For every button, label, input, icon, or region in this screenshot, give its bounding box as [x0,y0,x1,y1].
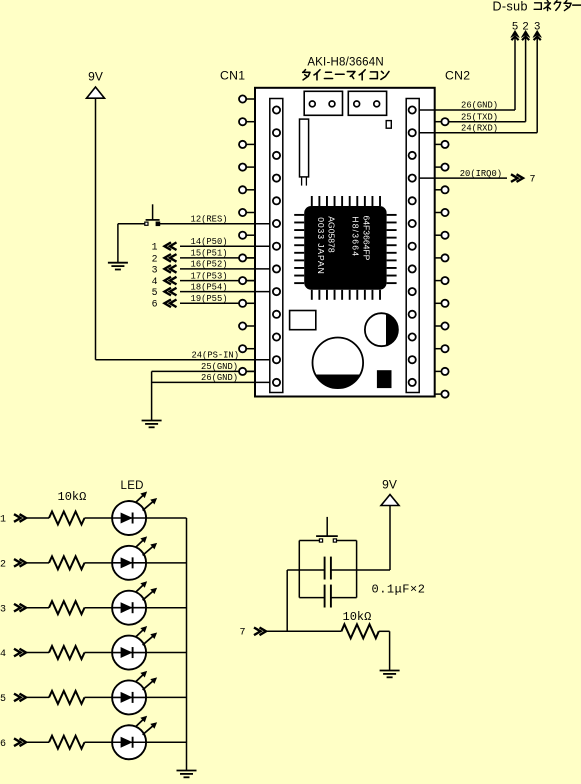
small pad [386,121,391,129]
IC pin right 10 [387,282,397,284]
wire 24(RXD) to D-sub 3 [412,132,537,134]
IC pin top 2 [318,196,320,206]
IC pin right 8 [387,267,397,269]
svg-text:17(P53): 17(P53) [191,271,228,281]
title katakana tiny microcomputer [303,70,305,73]
IC pin right 9 [387,275,397,277]
svg-text:H8/3664: H8/3664 [351,216,361,257]
CN1 inner pin row 10 [273,311,280,318]
svg-text:LED: LED [121,480,144,492]
svg-text:0.1μF×2: 0.1μF×2 [372,583,426,597]
wire ground to switch [118,223,146,225]
wire 14(P50) [180,245,277,247]
CN1 outer pin row 1 [243,98,255,100]
IC pin bottom 4 [334,290,336,300]
ground (LED bus) [177,770,197,772]
wire input row 2 [27,562,49,564]
CN1 inner pin row 6 [273,220,280,227]
arrow in 1 [20,514,27,522]
power 9V triangle symbol left [87,87,105,98]
wire 12(RES) [160,223,277,225]
CN2 inner pin row 8 [409,265,416,272]
svg-text:19(P55): 19(P55) [191,294,228,304]
IC pin left 6 [294,252,304,254]
CN2 inner pin row 2 [409,129,416,136]
IC pin left 2 [294,221,304,223]
svg-text:D-sub: D-sub [493,0,528,14]
svg-text:5: 5 [152,287,158,298]
svg-text:10kΩ: 10kΩ [343,610,372,624]
CN2 inner pin row 10 [409,311,416,318]
wire resistor to LED row 6 [85,741,113,743]
svg-text:6: 6 [152,299,158,310]
CN1 inner pin row 2 [273,129,280,136]
component pad rectangle [290,311,316,330]
CN1 inner pin row 3 [273,152,280,159]
resistor R2 10k [49,556,85,569]
CN2 inner pin row 12 [409,356,416,363]
svg-text:14(P50): 14(P50) [191,237,228,247]
arrow out 2 [165,254,172,262]
svg-text:18(P54): 18(P54) [191,282,228,292]
CN2 inner pin row 9 [409,288,416,295]
arrow in 3 [20,604,27,612]
LED D1 [112,501,146,535]
IC pin top 10 [379,196,381,206]
IC pin right 3 [387,229,397,231]
IC pin left 9 [294,275,304,277]
IC pin right 7 [387,259,397,261]
IC pin top 1 [311,196,313,206]
arrow out 5 [165,288,172,296]
LED common bus wire [186,518,188,771]
CN1 outer pin row 13 [243,370,255,372]
CN2 inner pin row 11 [409,333,416,340]
wire resistor to LED row 5 [85,696,113,698]
CN1 inner pin row 1 [273,106,280,113]
ground (module GND) [142,420,162,422]
wire 15(P51) [180,257,255,259]
CN1 outer pin row 3 [243,143,255,145]
svg-text:64F3664FP: 64F3664FP [362,216,372,261]
svg-text:9V: 9V [382,478,397,492]
svg-text:15(P51): 15(P51) [191,249,228,259]
IC pin bottom 3 [326,290,328,300]
svg-text:CN2: CN2 [445,68,470,82]
IC pin top 4 [334,196,336,206]
arrow in 7 [260,628,267,636]
arrow in 4 [20,649,27,657]
IC pin bottom 8 [364,290,366,300]
CN2 inner pin row 7 [409,243,416,250]
resistor R1 10k [49,512,85,525]
IC pin right 4 [387,237,397,239]
CN1 outer pin row 8 [243,257,255,259]
IC U1 H8/3664 [304,206,386,290]
CN2 outer pin row 13 [435,393,445,395]
wire 25(TXD) to D-sub 2 [449,121,526,123]
wire resistor to ground [379,630,390,632]
IC pin left 10 [294,282,304,284]
wire LED to bus row 3 [146,607,186,609]
CN2 inner pin row 13 [409,379,416,386]
CN1 inner pin row 7 [273,243,280,250]
wire 18(P54) [180,291,277,293]
jumper header block 2 [348,91,386,115]
IC pin bottom 9 [371,290,373,300]
svg-text:CN1: CN1 [220,68,245,82]
CN1 outer pin row 2 [243,121,255,123]
wire input row 4 [27,652,49,654]
svg-text:2: 2 [152,253,158,264]
svg-text:4: 4 [152,276,158,287]
wire 9V down [389,506,391,571]
CN2 outer pin row 3 [435,166,445,168]
CN1 outer pin row 4 [243,166,255,168]
arrow out 3 [165,265,172,273]
capacitor round (right, half filled) [365,313,398,346]
svg-text:3: 3 [0,604,6,615]
IC pin top 5 [341,196,343,206]
wire 24(PS-IN) [96,359,277,361]
svg-text:12(RES): 12(RES) [191,214,228,224]
svg-text:1: 1 [152,242,158,253]
IC pin bottom 2 [318,290,320,300]
CN2 inner pin row 4 [409,175,416,182]
svg-text:20(IRQ0): 20(IRQ0) [460,169,502,179]
IC pin right 5 [387,244,397,246]
wire LED to bus row 2 [146,562,186,564]
resistor R7 10k [341,624,378,638]
electrolytic capacitor (big, bottom filled) [313,338,364,389]
wire input row 5 [27,696,49,698]
CN2 outer pin row 10 [435,325,445,327]
ground (pulldown) [380,670,400,672]
CN1 outer pin row 9 [243,280,255,282]
CN2 outer pin row 7 [435,257,445,259]
IC pin bottom 7 [356,290,358,300]
resistor R6 10k [49,736,85,749]
wire 25(GND) [152,370,255,372]
black pad component [377,370,392,388]
pushbutton switch SW1 (reset) [152,204,154,220]
CN1 inner pin row 11 [273,333,280,340]
CN1 inner pin row 13 [273,379,280,386]
CN2 outer pin row 6 [435,234,445,236]
svg-text:AG05878: AG05878 [327,216,337,253]
wire input row 1 [27,517,49,519]
wire resistor to LED row 4 [85,652,113,654]
wire 19(P55) [180,302,255,304]
svg-text:24(RXD): 24(RXD) [461,123,498,133]
svg-text:10kΩ: 10kΩ [58,490,87,504]
IC pin top 6 [349,196,351,206]
IC pin right 2 [387,221,397,223]
CN2 inner pin row 5 [409,197,416,204]
svg-text:24(PS-IN): 24(PS-IN) [191,350,239,360]
wire switch loop top [299,540,319,542]
svg-text:25(GND): 25(GND) [201,362,238,372]
wire 17(P53) [180,280,255,282]
svg-text:26(GND): 26(GND) [201,373,238,383]
CN2 inner pin row 3 [409,152,416,159]
crystal/resonator [300,119,309,177]
CN1 outer pin row 6 [243,212,255,214]
CN2 outer pin row 8 [435,280,445,282]
LED D4 [112,636,146,670]
IC pin right 1 [387,214,397,216]
wire resistor to LED row 2 [85,562,113,564]
svg-text:1: 1 [0,515,6,526]
resistor R5 10k [49,691,85,704]
power 9V triangle symbol right [381,495,399,506]
wire LED to bus row 5 [146,696,186,698]
svg-text:26(GND): 26(GND) [461,101,498,111]
arrow out 6 [165,300,172,308]
arrow in 2 [20,559,27,567]
wire 7 input [267,630,341,632]
arrow out 4 [165,277,172,285]
resistor R4 10k [49,646,85,659]
IC pin top 3 [326,196,328,206]
svg-text:AKI-H8/3664N: AKI-H8/3664N [307,57,384,69]
svg-text:2: 2 [0,559,6,570]
CN2 outer pin row 12 [435,370,445,372]
resistor R3 10k [49,601,85,614]
wire resistor to LED row 1 [85,517,113,519]
svg-text:5: 5 [0,694,6,705]
wire 9V rail down to PS-IN [95,98,97,360]
LED D6 [112,725,146,759]
CN1 inner pin row 12 [273,356,280,363]
module board AKI-H8/3664N outline [255,88,435,397]
svg-text:9V: 9V [88,70,103,84]
CN1 inner pin row 5 [273,197,280,204]
wire LED to bus row 4 [146,652,186,654]
arrow out 7 [517,174,524,182]
wire loop left [298,541,300,598]
IC pin left 3 [294,229,304,231]
pushbutton switch SW2 [326,517,328,536]
wire 20(IRQ0) [412,177,507,179]
svg-text:25(TXD): 25(TXD) [461,112,498,122]
svg-text:6: 6 [0,739,6,750]
arrow out 1 [165,242,172,250]
LED D3 [112,591,146,625]
LED D2 [112,546,146,580]
CN2 outer pin row 4 [435,189,445,191]
CN2 inner pin row 6 [409,220,416,227]
wire gnd junction down [151,371,153,420]
IC pin right 6 [387,252,397,254]
LED D5 [112,680,146,714]
CN1 outer pin row 7 [243,234,255,236]
svg-text:7: 7 [530,175,536,186]
wire LED to bus row 6 [146,741,186,743]
IC pin top 7 [356,196,358,206]
CN1 outer pin row 12 [243,348,255,350]
wire 26(GND) to D-sub 5 [412,109,515,111]
wire loop right [356,541,358,598]
CN2 inner pin row 1 [409,106,416,113]
svg-text:7: 7 [240,628,246,639]
IC pin left 7 [294,259,304,261]
IC pin bottom 1 [311,290,313,300]
arrow in 5 [20,694,27,702]
CN2 outer pin row 11 [435,348,445,350]
CN1 header column [270,99,283,393]
svg-text:3: 3 [152,264,158,275]
IC pin left 1 [294,214,304,216]
wire 16(P52) [180,268,277,270]
wire cap node down to input [286,570,288,631]
CN1 inner pin row 9 [273,288,280,295]
IC pin left 5 [294,244,304,246]
svg-text:16(P52): 16(P52) [191,260,228,270]
CN1 inner pin row 8 [273,265,280,272]
CN2 header column [406,99,419,393]
IC pin bottom 5 [341,290,343,300]
wire resistor to LED row 3 [85,607,113,609]
CN2 outer pin row 5 [435,212,445,214]
CN2 outer pin row 1 [435,121,445,123]
capacitor C1 0.1uF [287,569,324,571]
wire input row 3 [27,607,49,609]
CN1 inner pin row 4 [273,175,280,182]
wire input row 6 [27,741,49,743]
IC pin left 4 [294,237,304,239]
CN1 outer pin row 10 [243,302,255,304]
IC pin top 9 [371,196,373,206]
CN1 outer pin row 5 [243,189,255,191]
ground (reset switch) [117,224,119,263]
wire 26(GND) [152,381,277,383]
CN2 outer pin row 2 [435,143,445,145]
IC pin left 8 [294,267,304,269]
IC pin bottom 6 [349,290,351,300]
arrow in 6 [20,738,27,746]
svg-text:0033 JAPAN: 0033 JAPAN [316,217,326,275]
svg-text:4: 4 [0,649,6,660]
IC pin bottom 10 [379,290,381,300]
capacitor C2 0.1uF [299,597,324,599]
wire LED to bus row 1 [146,517,186,519]
jumper header block 1 [304,91,342,115]
IC pin top 8 [364,196,366,206]
CN2 outer pin row 9 [435,302,445,304]
CN1 outer pin row 11 [243,325,255,327]
